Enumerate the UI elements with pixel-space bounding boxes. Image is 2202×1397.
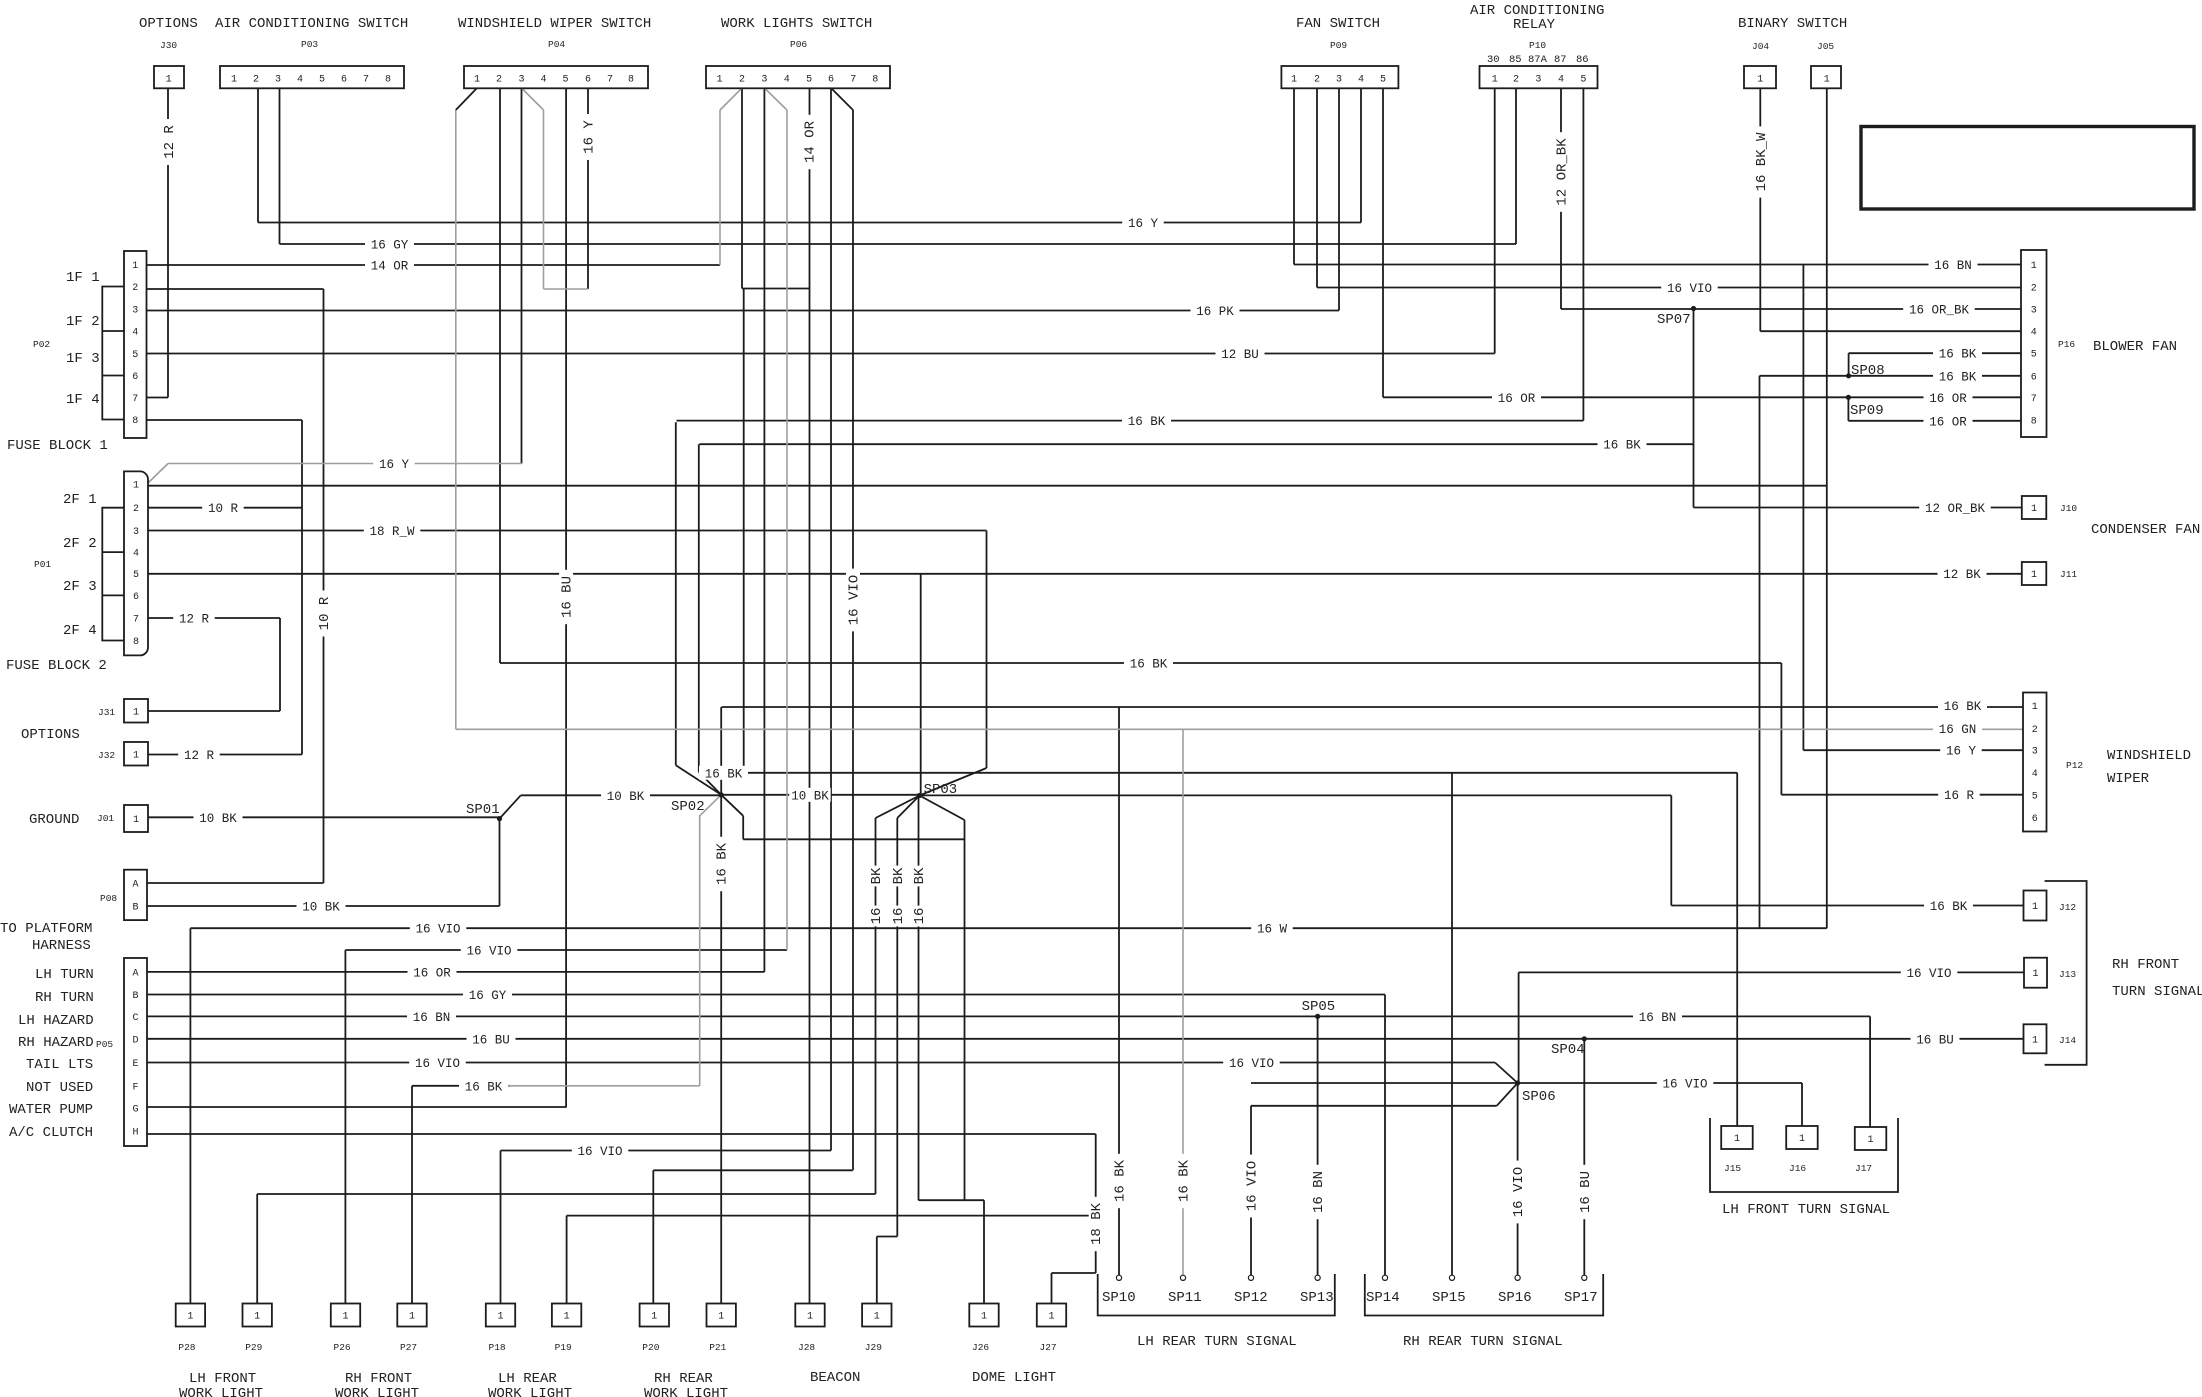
connector P16 blower fan bbox=[2021, 250, 2047, 437]
label 16 BN bbox=[407, 1009, 456, 1025]
svg-text:16 Y: 16 Y bbox=[379, 458, 410, 472]
wire P09.5 drop bbox=[1382, 88, 1384, 397]
wire 16 Y P04.6 drop bbox=[587, 88, 589, 289]
svg-text:1: 1 bbox=[1799, 1134, 1805, 1145]
wire 16 W J05 drop bbox=[1826, 88, 1828, 928]
svg-text:BEACON: BEACON bbox=[810, 1370, 860, 1386]
svg-text:TAIL LTS: TAIL LTS bbox=[26, 1057, 93, 1073]
svg-text:1: 1 bbox=[2031, 261, 2037, 272]
connector J12 bbox=[2024, 891, 2047, 921]
connector J26 bbox=[969, 1304, 998, 1327]
svg-text:85: 85 bbox=[1509, 54, 1522, 66]
svg-text:3: 3 bbox=[1535, 75, 1541, 86]
label 10 R bbox=[202, 501, 244, 517]
svg-text:J05: J05 bbox=[1817, 41, 1834, 52]
svg-text:LH REAR TURN SIGNAL: LH REAR TURN SIGNAL bbox=[1137, 1334, 1297, 1350]
wire diag SP02 SE bbox=[721, 795, 743, 816]
label 16 OR_BK bbox=[1903, 302, 1975, 318]
connector J32 bbox=[124, 742, 148, 766]
svg-text:BLOWER FAN: BLOWER FAN bbox=[2093, 339, 2177, 355]
svg-text:SP03: SP03 bbox=[924, 782, 958, 798]
wire P06 U jumper bbox=[742, 288, 810, 290]
svg-text:3: 3 bbox=[275, 75, 281, 86]
svg-text:14 OR: 14 OR bbox=[803, 120, 819, 163]
wire SP02 NW riser bbox=[675, 422, 677, 765]
bracket P01 stub f2 bbox=[102, 551, 124, 553]
wire 16 BK_W J04 drop bbox=[1759, 88, 1761, 331]
svg-text:4: 4 bbox=[1358, 75, 1364, 86]
wire 16 BK SP03 east bbox=[920, 794, 1672, 796]
wire 16 VIO to P28 bbox=[189, 928, 191, 1304]
wire gray 14 OR jog bbox=[719, 110, 721, 265]
wire P06.6 diag to P20 bbox=[852, 110, 854, 1170]
svg-text:16 BK: 16 BK bbox=[1603, 439, 1641, 453]
svg-text:SP02: SP02 bbox=[671, 799, 705, 815]
svg-text:4: 4 bbox=[132, 328, 138, 339]
svg-text:16 OR: 16 OR bbox=[1929, 392, 1967, 406]
svg-text:SP04: SP04 bbox=[1551, 1042, 1585, 1058]
svg-text:FUSE BLOCK 1: FUSE BLOCK 1 bbox=[7, 438, 108, 454]
svg-text:4: 4 bbox=[297, 75, 303, 86]
label BK (rotated) bbox=[912, 866, 929, 887]
svg-text:16 BU: 16 BU bbox=[1578, 1171, 1594, 1213]
wire 12 OR_BK SP07 to J10 bbox=[1694, 507, 2022, 509]
svg-text:5: 5 bbox=[133, 570, 139, 581]
label 10 BK bbox=[194, 810, 243, 826]
wire 18 BK drop bbox=[1095, 1134, 1097, 1273]
wire 16 BK gray to SP11 bbox=[1182, 729, 1184, 1276]
svg-text:8: 8 bbox=[132, 416, 138, 427]
svg-text:SP16: SP16 bbox=[1498, 1290, 1532, 1306]
svg-text:1: 1 bbox=[716, 75, 722, 86]
svg-text:16 GN: 16 GN bbox=[1939, 723, 1977, 737]
connector J04 bbox=[1744, 66, 1776, 88]
label 16 VIO bbox=[572, 1144, 629, 1160]
wire diag SP03 d3 bbox=[920, 796, 965, 821]
wire P09.1 drop bbox=[1293, 88, 1295, 265]
svg-text:P10: P10 bbox=[1529, 40, 1546, 51]
label 16 Y bbox=[1122, 216, 1164, 232]
svg-text:5: 5 bbox=[1380, 75, 1386, 86]
svg-text:16 BU: 16 BU bbox=[560, 576, 576, 618]
svg-text:P03: P03 bbox=[301, 39, 318, 50]
wire SP02 jog to J26 riser bbox=[743, 838, 964, 840]
svg-text:SP14: SP14 bbox=[1366, 1290, 1400, 1306]
title block rectangle bbox=[1861, 127, 2194, 210]
svg-text:16 BK: 16 BK bbox=[465, 1080, 503, 1094]
wire P06 U to SP02 bbox=[743, 289, 745, 773]
wire to P20 drop bbox=[652, 1170, 654, 1304]
label 16 BN (rotated) bbox=[1311, 1165, 1328, 1219]
wire P09.2 drop bbox=[1316, 88, 1318, 288]
wire 14 OR P06.5 to J28 bbox=[809, 88, 811, 1304]
svg-text:12 OR_BK: 12 OR_BK bbox=[1925, 502, 1986, 516]
connector J29 bbox=[862, 1304, 891, 1327]
svg-text:1: 1 bbox=[2031, 570, 2037, 581]
wire 16 BK row F gray bbox=[506, 1085, 700, 1087]
label 16 BK bbox=[1598, 437, 1647, 453]
label 16 BU (rotated) bbox=[1577, 1165, 1594, 1219]
label 12 R bbox=[173, 611, 215, 627]
svg-text:1: 1 bbox=[187, 1312, 193, 1323]
wire SP01 to P08.B bbox=[499, 819, 501, 906]
svg-text:2F 2: 2F 2 bbox=[63, 536, 97, 552]
junction dot SP04 bbox=[1582, 1036, 1587, 1041]
svg-text:RELAY: RELAY bbox=[1513, 17, 1556, 33]
svg-text:2: 2 bbox=[132, 283, 138, 294]
connector J28 bbox=[795, 1304, 824, 1327]
connector P19 bbox=[552, 1304, 581, 1327]
label 16 VIO bbox=[1223, 1056, 1280, 1072]
svg-text:P18: P18 bbox=[489, 1342, 506, 1353]
label 16 OR bbox=[1924, 390, 1973, 406]
wire 18 BK A/C CLUTCH row H bbox=[146, 1133, 1096, 1135]
wire SP03 drop1 to P29 bbox=[875, 818, 877, 1194]
label 16 Y bbox=[1940, 743, 1982, 759]
splice circle SP14 bbox=[1382, 1275, 1387, 1280]
wire P16.6 drop bbox=[1759, 376, 1761, 928]
svg-text:P26: P26 bbox=[334, 1342, 351, 1353]
wire 16 BK NOT USED row F bbox=[412, 1085, 510, 1087]
wire 12 R J32 bbox=[148, 754, 302, 756]
svg-text:P05: P05 bbox=[96, 1039, 113, 1050]
label 16 VIO bbox=[409, 1056, 466, 1072]
splice circle SP17 bbox=[1582, 1275, 1587, 1280]
wire 16 VIO to SP12 bbox=[1250, 1106, 1252, 1276]
svg-text:BK: BK bbox=[912, 867, 928, 884]
connector P01 fuse block 2 bbox=[124, 471, 148, 655]
wire P09.3 drop bbox=[1338, 88, 1340, 311]
wire diag SP01 bbox=[500, 795, 521, 818]
svg-text:12 R: 12 R bbox=[179, 613, 210, 627]
label 16 VIO (rotated) bbox=[1244, 1155, 1261, 1218]
svg-text:1: 1 bbox=[342, 1312, 348, 1323]
label 10 BK bbox=[789, 788, 831, 804]
svg-text:CONDENSER FAN: CONDENSER FAN bbox=[2091, 522, 2200, 538]
svg-text:16 BU: 16 BU bbox=[472, 1033, 510, 1047]
svg-text:WINDSHIELD WIPER SWITCH: WINDSHIELD WIPER SWITCH bbox=[458, 16, 651, 32]
svg-text:3: 3 bbox=[1336, 75, 1342, 86]
label 16 BU (rotated) bbox=[559, 570, 576, 624]
svg-text:WIPER: WIPER bbox=[2107, 771, 2150, 787]
junction dot SP05 bbox=[1315, 1014, 1320, 1019]
wire 10 R P01.2 bbox=[147, 507, 302, 509]
wire P10.2 drop bbox=[1515, 88, 1517, 244]
svg-text:WINDSHIELD: WINDSHIELD bbox=[2107, 748, 2191, 764]
wire SP07 drop bbox=[1693, 309, 1695, 508]
svg-text:7: 7 bbox=[2031, 394, 2037, 405]
svg-text:P08: P08 bbox=[100, 893, 117, 904]
svg-text:SP15: SP15 bbox=[1432, 1290, 1466, 1306]
wire 16 PK P02.3 to P09.3 bbox=[146, 310, 1339, 312]
svg-text:J04: J04 bbox=[1752, 41, 1769, 52]
svg-text:1: 1 bbox=[1867, 1135, 1873, 1146]
svg-text:J30: J30 bbox=[160, 40, 177, 51]
svg-text:87: 87 bbox=[1554, 54, 1567, 66]
wire SP09 jog bbox=[1847, 397, 1849, 421]
svg-text:J16: J16 bbox=[1789, 1163, 1806, 1174]
splice circle SP16 bbox=[1515, 1275, 1520, 1280]
svg-text:1: 1 bbox=[2031, 504, 2037, 515]
svg-text:SP08: SP08 bbox=[1851, 363, 1885, 379]
label 12 R (rotated) bbox=[162, 119, 179, 165]
svg-text:16 BK: 16 BK bbox=[1128, 415, 1166, 429]
splice circle SP12 bbox=[1248, 1275, 1253, 1280]
svg-text:A/C CLUTCH: A/C CLUTCH bbox=[9, 1125, 93, 1141]
svg-text:87A: 87A bbox=[1528, 54, 1548, 66]
svg-text:P19: P19 bbox=[555, 1342, 572, 1353]
svg-text:FUSE BLOCK 2: FUSE BLOCK 2 bbox=[6, 658, 107, 674]
svg-text:12 OR_BK: 12 OR_BK bbox=[1555, 138, 1571, 206]
svg-text:SP06: SP06 bbox=[1522, 1089, 1556, 1105]
wire SP03 south to J26 bbox=[918, 796, 920, 1201]
svg-text:WATER PUMP: WATER PUMP bbox=[9, 1102, 93, 1118]
svg-text:16 GY: 16 GY bbox=[469, 989, 507, 1003]
wire P03.3 drop bbox=[279, 88, 281, 244]
svg-text:J28: J28 bbox=[798, 1342, 815, 1353]
svg-text:16 VIO: 16 VIO bbox=[1667, 282, 1712, 296]
wire to P29 drop bbox=[256, 1194, 258, 1304]
wire J27 jog bbox=[1052, 1272, 1096, 1274]
wire SP03 north bbox=[920, 574, 922, 796]
svg-text:RH REAR: RH REAR bbox=[654, 1371, 713, 1387]
svg-text:1: 1 bbox=[166, 75, 172, 86]
svg-text:3: 3 bbox=[761, 75, 767, 86]
svg-text:16 VIO: 16 VIO bbox=[577, 1145, 622, 1159]
svg-text:LH REAR: LH REAR bbox=[498, 1371, 557, 1387]
svg-text:SP05: SP05 bbox=[1302, 999, 1336, 1015]
wire 16 VIO / 16 W platform bbox=[190, 927, 1826, 929]
svg-text:TO PLATFORM: TO PLATFORM bbox=[0, 921, 92, 937]
svg-text:B: B bbox=[132, 991, 138, 1002]
wire SP02 SE drop bbox=[742, 816, 744, 840]
connector J16 bbox=[1786, 1126, 1818, 1149]
wire 16 OR P09.5 to P16.7 bbox=[1383, 396, 2021, 398]
svg-text:BK: BK bbox=[869, 867, 885, 884]
svg-text:1: 1 bbox=[2032, 702, 2038, 713]
label 16 BK bbox=[1933, 346, 1982, 362]
label 16 R bbox=[1938, 788, 1980, 804]
connector P06 bbox=[706, 66, 890, 88]
wire 16 VIO SP06 west bbox=[1251, 1082, 1518, 1084]
svg-text:SP10: SP10 bbox=[1102, 1290, 1136, 1306]
svg-text:16 W: 16 W bbox=[1257, 923, 1288, 937]
splice circle SP13 bbox=[1315, 1275, 1320, 1280]
wire diag SP02 NE bbox=[699, 772, 721, 795]
wire P09.4 drop bbox=[1360, 88, 1362, 223]
svg-text:16: 16 bbox=[891, 908, 907, 925]
wire 16 BK to J12 bbox=[1671, 905, 2023, 907]
svg-text:1: 1 bbox=[651, 1312, 657, 1323]
svg-text:NOT USED: NOT USED bbox=[26, 1080, 93, 1096]
svg-text:1: 1 bbox=[497, 1312, 503, 1323]
svg-text:1: 1 bbox=[132, 261, 138, 272]
connector P08 bbox=[124, 870, 147, 920]
svg-text:2: 2 bbox=[133, 504, 139, 515]
connector J15 bbox=[1721, 1126, 1753, 1149]
svg-text:1: 1 bbox=[2032, 902, 2038, 913]
svg-text:J01: J01 bbox=[97, 813, 114, 824]
wire diag SP02 SW bbox=[700, 795, 722, 816]
wire 12 R to J31 bbox=[279, 618, 281, 711]
svg-text:J32: J32 bbox=[98, 750, 115, 761]
connector J31 bbox=[124, 699, 148, 723]
wire to P19 drop bbox=[566, 1216, 568, 1304]
label 12 BU bbox=[1216, 347, 1265, 363]
svg-text:12 BK: 12 BK bbox=[1943, 568, 1981, 582]
wire 16 BN P09.1 to P16.1 bbox=[1294, 264, 2021, 266]
svg-text:10 BK: 10 BK bbox=[302, 901, 340, 915]
wire 16 BK P04.2 to P12.5 bbox=[500, 662, 1781, 664]
connector J30 bbox=[154, 66, 184, 88]
svg-text:16 GY: 16 GY bbox=[371, 239, 409, 253]
svg-text:SP09: SP09 bbox=[1850, 403, 1884, 419]
svg-text:2F 4: 2F 4 bbox=[63, 623, 97, 639]
wire 16 BU RH HAZARD to J14 bbox=[146, 1038, 2024, 1040]
svg-text:WORK LIGHT: WORK LIGHT bbox=[644, 1386, 728, 1397]
wire diag P06.2-1 bbox=[720, 88, 742, 110]
wire SP03 east drop bbox=[1670, 795, 1672, 905]
label 16 Y (rotated) bbox=[581, 114, 598, 160]
wire 14 OR P02.1 to P06.2 bbox=[146, 264, 720, 266]
svg-text:OPTIONS: OPTIONS bbox=[21, 727, 80, 743]
wire J15 riser bbox=[1736, 773, 1738, 1127]
svg-text:P20: P20 bbox=[642, 1342, 659, 1353]
wire diag SP03 d1 bbox=[876, 796, 920, 819]
svg-text:2: 2 bbox=[2031, 284, 2037, 295]
svg-text:1: 1 bbox=[2032, 1035, 2038, 1046]
wire diag SP03 NE bbox=[920, 768, 987, 796]
bracket LH rear turn signal bbox=[1098, 1274, 1335, 1316]
svg-text:3: 3 bbox=[132, 306, 138, 317]
svg-text:5: 5 bbox=[132, 350, 138, 361]
bracket LH front turn signal bbox=[1710, 1118, 1898, 1192]
connector P10 bbox=[1480, 66, 1598, 88]
connector P09 bbox=[1281, 66, 1398, 88]
wire J29 drop bbox=[876, 1237, 878, 1305]
svg-text:3: 3 bbox=[2032, 747, 2038, 758]
label 16 BK bbox=[1122, 414, 1171, 430]
wire 16 R to P12.5 bbox=[1781, 794, 2023, 796]
svg-text:P29: P29 bbox=[245, 1342, 262, 1353]
wire 16 VIO TAIL LTS row E bbox=[146, 1062, 1495, 1064]
svg-text:LH TURN: LH TURN bbox=[35, 967, 94, 983]
wire J31 jog bbox=[148, 710, 280, 712]
wire 16 GY P03.3 to P10.2 bbox=[280, 243, 1517, 245]
wire 16 VIO to P18 bbox=[501, 1150, 832, 1152]
label 16 VIO bbox=[1657, 1076, 1714, 1092]
connector P05 bbox=[124, 958, 147, 1146]
svg-text:16 OR: 16 OR bbox=[1929, 415, 1967, 429]
svg-text:16: 16 bbox=[869, 908, 885, 925]
wire diag P06.6-7 bbox=[831, 88, 853, 110]
label 18 R_W bbox=[364, 524, 421, 540]
svg-text:J14: J14 bbox=[2059, 1035, 2076, 1046]
wire 16 VIO P09.2 to P16.2 bbox=[1317, 287, 2021, 289]
svg-text:6: 6 bbox=[828, 75, 834, 86]
label 16 BK_W (rotated) bbox=[1753, 126, 1770, 197]
svg-text:7: 7 bbox=[133, 615, 139, 626]
svg-text:16 OR: 16 OR bbox=[413, 966, 451, 980]
bracket P01 fuses bbox=[102, 508, 124, 641]
connector P26 bbox=[331, 1304, 360, 1327]
svg-text:16 BU: 16 BU bbox=[1916, 1033, 1954, 1047]
svg-text:P01: P01 bbox=[34, 559, 51, 570]
svg-text:12 R: 12 R bbox=[184, 749, 215, 763]
svg-text:P02: P02 bbox=[33, 339, 50, 350]
svg-text:DOME LIGHT: DOME LIGHT bbox=[972, 1370, 1056, 1386]
wire 18 R_W drop to SP03 bbox=[986, 531, 988, 769]
svg-text:2: 2 bbox=[496, 75, 502, 86]
svg-text:A: A bbox=[132, 880, 138, 891]
wire 12 OR_BK P10.4 drop bbox=[1560, 88, 1562, 309]
wire 16 BK SP02 to J15 bbox=[699, 772, 1737, 774]
connector P03 bbox=[220, 66, 404, 88]
svg-text:1: 1 bbox=[1757, 75, 1763, 86]
svg-text:16 Y: 16 Y bbox=[1946, 745, 1977, 759]
wire P08.A bbox=[146, 882, 324, 884]
connector P21 bbox=[707, 1304, 736, 1327]
svg-text:WORK LIGHT: WORK LIGHT bbox=[179, 1386, 263, 1397]
svg-text:J13: J13 bbox=[2059, 969, 2076, 980]
label 16 VIO (rotated) bbox=[846, 569, 863, 632]
wire 16 GN gray to P12.2 bbox=[456, 728, 2023, 730]
splice circle SP10 bbox=[1116, 1275, 1121, 1280]
label 16 GY bbox=[463, 988, 512, 1004]
svg-text:86: 86 bbox=[1576, 54, 1589, 66]
bracket RH front turn signal bbox=[2045, 881, 2087, 1065]
wire 10 BK P08.B bbox=[146, 905, 500, 907]
svg-text:10 BK: 10 BK bbox=[199, 812, 237, 826]
svg-text:1: 1 bbox=[133, 481, 139, 492]
svg-text:2: 2 bbox=[1314, 75, 1320, 86]
svg-text:30: 30 bbox=[1487, 54, 1500, 66]
svg-text:1: 1 bbox=[133, 750, 139, 761]
junction dot SP02 bbox=[719, 792, 724, 797]
bracket P02 stub f2 bbox=[102, 330, 124, 332]
svg-text:BINARY SWITCH: BINARY SWITCH bbox=[1738, 16, 1847, 32]
svg-text:16 VIO: 16 VIO bbox=[1245, 1161, 1261, 1211]
svg-text:1: 1 bbox=[254, 1312, 260, 1323]
svg-text:4: 4 bbox=[2031, 328, 2037, 339]
svg-text:FAN SWITCH: FAN SWITCH bbox=[1296, 16, 1380, 32]
wire 16 VIO to P26 bbox=[345, 949, 787, 951]
svg-text:1: 1 bbox=[718, 1312, 724, 1323]
wire to P19 bbox=[567, 1215, 1096, 1217]
svg-text:GROUND: GROUND bbox=[29, 812, 79, 828]
svg-text:16 VIO: 16 VIO bbox=[415, 923, 460, 937]
svg-text:4: 4 bbox=[540, 75, 546, 86]
wire 16 VIO SP06 to J13 bbox=[1519, 971, 2025, 973]
label 16 OR bbox=[408, 965, 457, 981]
wire 16 BU P04.5 drop bbox=[565, 88, 567, 1107]
wire 16 BK_W J04 to P16.4 bbox=[1760, 330, 2021, 332]
svg-text:8: 8 bbox=[385, 75, 391, 86]
svg-text:SP07: SP07 bbox=[1657, 312, 1691, 328]
connector P04 bbox=[464, 66, 648, 88]
connector P20 bbox=[640, 1304, 669, 1327]
label 16 VIO bbox=[461, 943, 518, 959]
svg-text:16 VIO: 16 VIO bbox=[466, 945, 511, 959]
svg-text:16 BN: 16 BN bbox=[413, 1011, 451, 1025]
svg-text:P28: P28 bbox=[178, 1342, 195, 1353]
label 16 BK (rotated) bbox=[1112, 1154, 1129, 1208]
wire 16 OR SP09 to P16.8 bbox=[1848, 420, 2021, 422]
wire diag SP02 NW bbox=[676, 765, 721, 795]
wire 16 BN SP05 to SP13 bbox=[1317, 1016, 1319, 1276]
svg-text:16 BK: 16 BK bbox=[1944, 700, 1982, 714]
wire 16 BK SP02 to P21 bbox=[720, 795, 722, 1304]
